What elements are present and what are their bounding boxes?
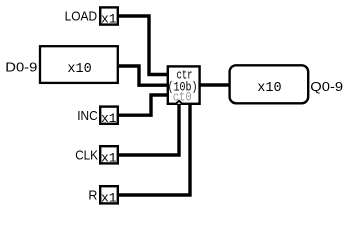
svg-text:D0-9: D0-9 [5,59,37,74]
svg-text:LOAD: LOAD [65,8,98,23]
svg-text:x1: x1 [101,191,117,206]
clock edge triangle on ctr bottom pin [176,101,182,104]
input port INC (x1 box) [100,107,118,126]
input port CLK (x1 box) [100,146,118,165]
wire Q bus from ctr to output x10 box (net Q0-9) [199,83,230,86]
wire R to ctr reset pin (net R) [119,103,190,195]
input port LOAD (x1 box) [100,7,118,26]
input port D0-9 (x10 box) [40,46,118,83]
wire LOAD to ctr (net LOAD) [119,16,168,75]
svg-text:x1: x1 [101,12,117,27]
svg-text:Q0-9: Q0-9 [310,79,343,94]
wire D bus from x10 box to ctr (net D0-9) [119,66,168,85]
svg-text:x1: x1 [101,151,117,166]
svg-text:INC: INC [77,108,98,123]
input port R (x1 box) [100,186,118,205]
svg-text:x10: x10 [257,81,281,96]
wire CLK to ctr clock pin (net CLK) [119,103,179,155]
svg-text:CLK: CLK [75,148,98,163]
svg-text:ct0: ct0 [173,89,192,104]
svg-text:x10: x10 [67,62,91,77]
svg-text:R: R [88,187,97,202]
wire INC to ctr (net INC) [119,95,168,115]
counter U1 (ctr 10b block) [168,66,200,104]
svg-text:x1: x1 [101,111,117,126]
output port Q0-9 (x10 rounded box) [230,65,309,103]
